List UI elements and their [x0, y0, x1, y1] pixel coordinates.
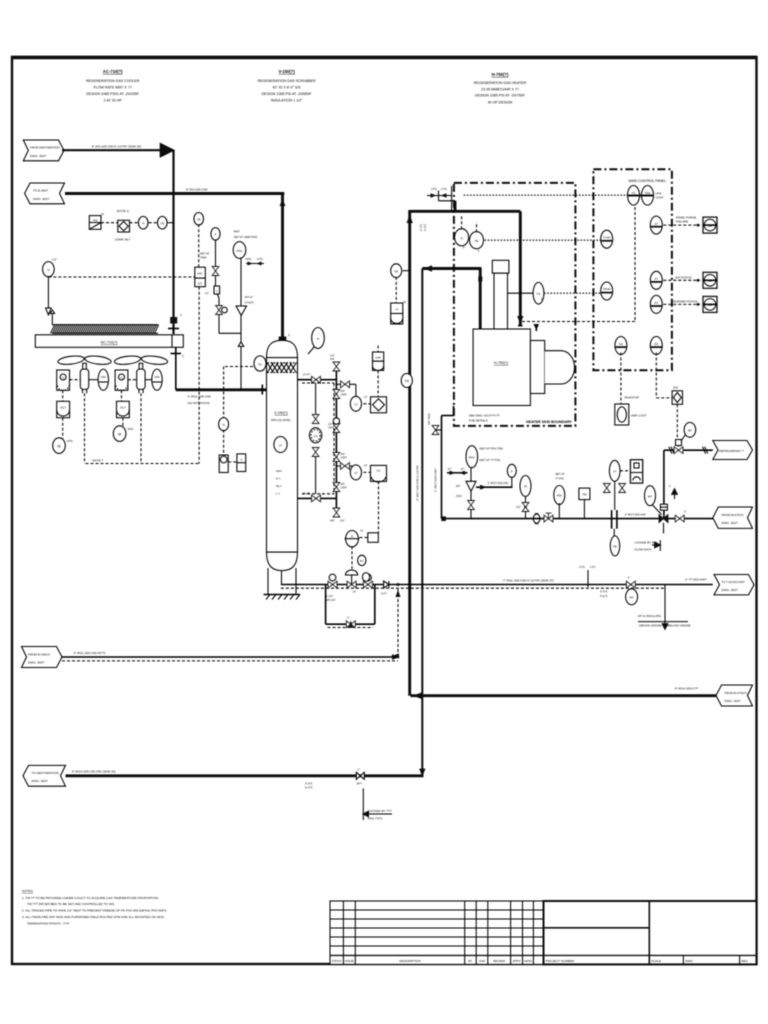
svg-text:SA: SA: [708, 303, 712, 307]
svg-text:APPV: APPV: [512, 959, 520, 963]
svg-text:SCALE: SCALE: [651, 959, 661, 963]
svg-text:A?: A?: [461, 467, 465, 471]
svg-text:REGENERATION GAS SCRUBBER: REGENERATION GAS SCRUBBER: [258, 79, 316, 83]
svg-text:3/4": 3/4": [456, 484, 461, 488]
svg-text:M?: M?: [630, 596, 634, 600]
svg-text:700#: 700#: [200, 256, 207, 260]
svg-text:3/4": 3/4": [330, 357, 335, 361]
svg-text:S/D STATUS: S/D STATUS: [675, 276, 692, 280]
svg-text:SET AT 1085 PSIG: SET AT 1085 PSIG: [234, 235, 258, 239]
svg-text:5-1(?): 5-1(?): [600, 594, 608, 598]
svg-text:1": 1": [347, 616, 350, 620]
svg-text:??: ??: [360, 529, 364, 533]
svg-text:BY: BY: [468, 959, 472, 963]
svg-text:2'x?": 2'x?": [381, 592, 387, 596]
svg-text:HEATER SKID BOUNDARY: HEATER SKID BOUNDARY: [526, 420, 572, 424]
svg-text:(SET AT PSV-750): (SET AT PSV-750): [479, 447, 503, 451]
svg-text:HIC: HIC: [197, 272, 203, 276]
svg-text:VSH: VSH: [154, 375, 159, 379]
svg-text:FROM DEHYDRATION: FROM DEHYDRATION: [30, 146, 60, 150]
svg-text:LT: LT: [354, 403, 357, 407]
svg-text:NOTES:: NOTES:: [22, 889, 34, 893]
svg-text:CSO: CSO: [456, 494, 463, 498]
svg-text:PROJECT NUMBER: PROJECT NUMBER: [546, 959, 575, 963]
svg-text:M: M: [118, 432, 121, 436]
svg-text:DATE: DATE: [524, 959, 532, 963]
svg-text:DESCRIPTION: DESCRIPTION: [399, 959, 420, 963]
svg-text:F: F: [511, 469, 513, 473]
svg-text:A?: A?: [654, 277, 658, 281]
svg-text:SET AT: SET AT: [555, 472, 565, 476]
svg-text:REFRIGERANT ?: REFRIGERANT ?: [719, 449, 744, 453]
svg-text:1": 1": [358, 768, 361, 772]
svg-text:1/2": 1/2": [516, 505, 521, 509]
svg-text:SA: SA: [708, 224, 712, 228]
svg-text:SP-10?: SP-10?: [326, 598, 336, 602]
svg-text:TO T-29-020-A40?: TO T-29-020-A40?: [722, 580, 746, 584]
svg-text:TE: TE: [160, 221, 164, 225]
svg-text:LV: LV: [353, 590, 356, 594]
svg-text:1/2": 1/2": [340, 519, 345, 523]
svg-text:L =: L =: [276, 492, 280, 496]
svg-text:2 AT 33 HP: 2 AT 33 HP: [104, 99, 123, 103]
svg-text:TI: TI: [460, 236, 463, 240]
svg-text:3/4": 3/4": [330, 519, 335, 523]
svg-text:FLOW NO(?): FLOW NO(?): [635, 548, 652, 552]
svg-text:(NOTE 1): (NOTE 1): [117, 209, 129, 213]
svg-text:H =: H =: [276, 477, 281, 481]
svg-text:TAHH: TAHH: [603, 287, 611, 291]
svg-text:SA: SA: [619, 342, 623, 346]
svg-text:G: G: [120, 375, 122, 379]
svg-text:PSV: PSV: [236, 249, 242, 253]
svg-text:PDI: PDI: [557, 494, 562, 498]
svg-text:3/4": 3/4": [341, 482, 346, 486]
svg-text:FROM E-400(?): FROM E-400(?): [28, 652, 50, 656]
svg-text:7"-RGL-025-C50-H 1/2"PP (SDM 3: 7"-RGL-025-C50-H 1/2"PP (SDM 3?): [503, 579, 554, 583]
svg-text:DWG. 002?: DWG. 002?: [722, 521, 738, 525]
svg-text:LG: LG: [314, 434, 319, 438]
svg-text:REGENERATION GAS COOLER: REGENERATION GAS COOLER: [86, 79, 140, 83]
svg-text:TERMINATION POINTS - TYP: TERMINATION POINTS - TYP: [27, 922, 69, 926]
svg-text:1/2": 1/2": [328, 422, 333, 426]
svg-text:M? & INSULATE: M? & INSULATE: [638, 614, 661, 618]
svg-text:22.05 MMBTU/HR X ??: 22.05 MMBTU/HR X ??: [481, 87, 519, 91]
svg-text:PI: PI: [524, 485, 527, 489]
svg-text:TW: TW: [404, 379, 409, 383]
svg-text:INSULATION 1 1/2": INSULATION 1 1/2": [271, 99, 303, 103]
svg-text:2. ALL TRACED PIPE TO HAVE 1/2: 2. ALL TRACED PIPE TO HAVE 1/2" HEAT TO …: [22, 909, 166, 913]
svg-text:BURNER STATUS: BURNER STATUS: [674, 300, 698, 304]
svg-text:MAIN CONTROL PANEL: MAIN CONTROL PANEL: [629, 179, 667, 183]
svg-text:1": 1": [628, 576, 631, 580]
svg-text:8"-RG-025-C50-H 1/2"PP (SDM 30: 8"-RG-025-C50-H 1/2"PP (SDM 30): [92, 145, 141, 149]
svg-text:4"-RGL-025-C50-H(??): 4"-RGL-025-C50-H(??): [74, 651, 106, 655]
svg-text:M?A: M?A: [67, 439, 73, 443]
svg-text:PM?: PM?: [234, 230, 240, 234]
svg-text:G: G: [62, 375, 64, 379]
svg-text:V-150(?): V-150(?): [274, 411, 288, 415]
svg-text:AC-710(?): AC-710(?): [101, 341, 118, 345]
svg-text:C?O: C?O: [257, 257, 264, 261]
svg-text:LOCKED BY ???: LOCKED BY ???: [368, 809, 392, 813]
svg-text:PSV: PSV: [469, 455, 475, 459]
svg-text:(SET AT ?? PSI): (SET AT ?? PSI): [479, 458, 500, 462]
svg-text:LT: LT: [354, 471, 357, 475]
svg-text:REV: REV: [741, 959, 748, 963]
svg-text:TE: TE: [197, 218, 201, 222]
svg-text:A?: A?: [654, 222, 658, 226]
svg-text:M?: M?: [648, 494, 652, 498]
svg-text:DESIGN 1085 PSI AT -20/750F: DESIGN 1085 PSI AT -20/750F: [475, 94, 526, 98]
svg-text:2?: 2?: [364, 464, 368, 468]
svg-text:T: T: [240, 458, 242, 462]
svg-text:40 HP DESIGN: 40 HP DESIGN: [488, 100, 513, 104]
svg-text:AMP. LOOT: AMP. LOOT: [631, 414, 647, 418]
svg-text:3/4": 3/4": [341, 452, 346, 456]
svg-text:ABOVE GRADE: ABOVE GRADE: [639, 624, 662, 628]
svg-text:TAH: TAH: [645, 191, 651, 195]
svg-text:GL?: GL?: [120, 406, 126, 410]
svg-text:LAH: LAH: [375, 356, 380, 360]
svg-text:DWG: DWG: [685, 959, 693, 963]
svg-text:ATM: ATM: [245, 257, 251, 261]
svg-text:L?O: L?O: [590, 565, 596, 569]
svg-text:CONT: CONT: [656, 196, 664, 200]
svg-text:LOCKED BY MIN: LOCKED BY MIN: [635, 541, 658, 545]
svg-text:SA: SA: [654, 342, 658, 346]
svg-text:AC-710(?): AC-710(?): [103, 69, 123, 74]
svg-text:M?A: M?A: [128, 427, 134, 431]
svg-text:C?O: C?O: [441, 187, 448, 191]
svg-text:DWG. 002?: DWG. 002?: [33, 197, 49, 201]
svg-text:C?O: C?O: [431, 187, 438, 191]
svg-text:MIN.LIQ.LEVEL: MIN.LIQ.LEVEL: [271, 418, 291, 422]
svg-text:TI: TI: [47, 268, 50, 272]
svg-text:DWG. 002?: DWG. 002?: [32, 779, 48, 783]
svg-text:4"-RG?-025-C50-H 1/2"PP: 4"-RG?-025-C50-H 1/2"PP: [416, 465, 420, 501]
svg-text:F: F: [463, 246, 465, 250]
svg-text:4"-RGA-025-C50-HW (SDM 30): 4"-RGA-025-C50-HW (SDM 30): [72, 770, 116, 774]
svg-text:TW: TW: [93, 219, 98, 223]
svg-text:3. ALL ITEMS ARE OFF SKID AND: 3. ALL ITEMS ARE OFF SKID AND FURNISHED …: [22, 915, 165, 919]
svg-text:VSH: VSH: [101, 375, 106, 379]
svg-text:C50?: C50?: [341, 456, 348, 460]
svg-text:TI: TI: [142, 221, 145, 225]
svg-text:3/4": 3/4": [341, 389, 346, 393]
svg-text:NOTE ?: NOTE ?: [92, 459, 103, 463]
svg-text:S/D: S/D: [673, 386, 679, 390]
svg-text:DWG. 000?: DWG. 000?: [28, 660, 44, 664]
svg-text:5-7(?): 5-7(?): [423, 224, 427, 231]
svg-text:5-7(?): 5-7(?): [419, 224, 423, 231]
svg-text:6"-RGA-025-C??: 6"-RGA-025-C??: [675, 687, 699, 691]
svg-text:1?: 1?: [279, 443, 283, 447]
svg-text:TO DEHYDRATION: TO DEHYDRATION: [32, 771, 59, 775]
svg-text:C50?: C50?: [341, 486, 348, 490]
svg-text:C?O: C?O: [579, 565, 586, 569]
svg-text:FROM B-A?02(?): FROM B-A?02(?): [725, 691, 748, 695]
svg-text:1"-RG?-025-A40: 1"-RG?-025-A40: [488, 481, 509, 485]
svg-text:TI: TI: [222, 423, 225, 427]
svg-text:?? PSI: ?? PSI: [555, 477, 564, 481]
svg-text:TE: TE: [475, 239, 479, 243]
svg-text:V-150(?): V-150(?): [278, 69, 295, 74]
svg-text:ISSUE: ISSUE: [345, 959, 354, 963]
svg-text:SP?: SP?: [357, 782, 363, 786]
svg-text:TI AH: TI AH: [603, 236, 611, 240]
svg-text:3/4" SOV: 3/4" SOV: [427, 413, 431, 425]
svg-text:F: F: [541, 297, 543, 301]
svg-text:STATUS: STATUS: [332, 959, 342, 963]
svg-text:H-750(?): H-750(?): [492, 72, 509, 77]
svg-text:DWG. 002?: DWG. 002?: [30, 154, 46, 158]
svg-text:2"-RG?-025-A40: 2"-RG?-025-A40: [625, 512, 646, 516]
svg-text:8"-RG-025-C50: 8"-RG-025-C50: [186, 188, 208, 192]
svg-text:HY: HY: [198, 282, 202, 286]
svg-text:A?: A?: [654, 301, 658, 305]
svg-text:2"-??-020-A40?: 2"-??-020-A40?: [685, 578, 707, 582]
svg-text:1/2": 1/2": [52, 258, 57, 262]
svg-text:F: F: [478, 249, 480, 253]
svg-text:1?: 1?: [364, 395, 368, 399]
svg-text:CHK: CHK: [479, 959, 485, 963]
svg-text:F: F: [215, 233, 217, 237]
svg-text:TO E-002?: TO E-002?: [33, 189, 48, 193]
svg-text:42" ID X 8'-0" S/S: 42" ID X 8'-0" S/S: [272, 86, 301, 90]
svg-text:5-7(?): 5-7(?): [600, 590, 608, 594]
svg-text:3/4"x1": 3/4"x1": [245, 295, 254, 299]
svg-text:1. TW-?? TO BE PROVIDED UNDER: 1. TW-?? TO BE PROVIDED UNDER A DUCT TO …: [22, 896, 158, 900]
svg-text:C50?: C50?: [328, 426, 335, 430]
svg-text:HH=: HH=: [276, 469, 282, 473]
svg-text:1"-RG?-025-A40?: 1"-RG?-025-A40?: [434, 468, 438, 492]
svg-text:DESIGN 1085 PSI AT -20/650F: DESIGN 1085 PSI AT -20/650F: [262, 92, 313, 96]
svg-text:C?O(?): C?O(?): [245, 301, 254, 305]
svg-text:1": 1": [684, 510, 687, 514]
svg-text:5-7(?): 5-7(?): [305, 786, 313, 790]
svg-text:COMP. ML?: COMP. ML?: [115, 238, 131, 242]
svg-text:M: M: [58, 444, 61, 448]
svg-text:TE: TE: [394, 269, 398, 273]
svg-text:A?: A?: [448, 467, 452, 471]
svg-text:TW: TW: [582, 493, 587, 497]
svg-text:RUN/STOP: RUN/STOP: [625, 395, 640, 399]
svg-text:SA: SA: [708, 279, 712, 283]
svg-text:2"x??: 2"x??: [303, 373, 311, 377]
svg-text:SEE DWG. NA-0???-??: SEE DWG. NA-0???-??: [469, 414, 500, 418]
svg-text:FI: FI: [613, 470, 616, 474]
svg-text:NL=: NL=: [276, 484, 282, 488]
svg-text:DWG. 002?: DWG. 002?: [722, 588, 738, 592]
svg-text:B?: B?: [360, 559, 364, 563]
svg-text:REGENERATION GAS HEATER: REGENERATION GAS HEATER: [474, 81, 527, 85]
svg-text:TI: TI: [317, 337, 320, 341]
svg-text:H-750(?): H-750(?): [494, 361, 508, 365]
svg-text:TI: TI: [395, 308, 398, 312]
svg-text:DESIGN 1085 PSIG AT -20/250F: DESIGN 1085 PSIG AT -20/250F: [86, 92, 140, 96]
svg-text:BELOW GRADE: BELOW GRADE: [668, 624, 691, 628]
svg-text:REVIEW: REVIEW: [493, 959, 505, 963]
svg-text:DWG. 002?: DWG. 002?: [725, 699, 741, 703]
svg-text:C50?: C50?: [341, 393, 348, 397]
svg-text:1/2": 1/2": [330, 354, 335, 358]
svg-text:M?: M?: [688, 428, 692, 432]
svg-text:FOR DETAILS: FOR DETAILS: [469, 419, 488, 423]
svg-text:GL?: GL?: [60, 406, 66, 410]
svg-text:FROM B-070(?): FROM B-070(?): [722, 513, 744, 517]
svg-text:PSV ??(?): PSV ??(?): [368, 817, 382, 821]
svg-text:TW-??? DRYER BED TO BE SET AND: TW-??? DRYER BED TO BE SET AND CONTROLLE…: [27, 902, 115, 906]
svg-text:FE: FE: [613, 545, 617, 549]
svg-text:FLOW RATE MM? X ??: FLOW RATE MM? X ??: [94, 86, 132, 90]
svg-text:LI: LI: [351, 535, 354, 539]
svg-text:FAILURE: FAILURE: [676, 220, 688, 224]
